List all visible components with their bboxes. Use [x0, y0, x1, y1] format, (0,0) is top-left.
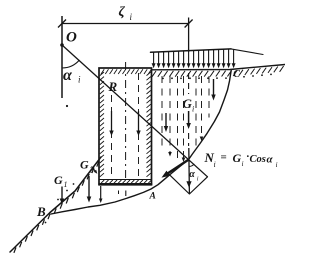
svg-text:i: i: [242, 159, 244, 168]
solid arrow in right soil mass (near C): [213, 79, 215, 96]
ground surface right of wall: [152, 65, 286, 70]
wall base hatch band top line: [99, 179, 152, 181]
wall slice outline: [99, 68, 152, 185]
wall right edge hatching: [147, 72, 151, 76]
svg-text:α: α: [63, 67, 73, 84]
centre vertical axis through O: [61, 16, 63, 98]
svg-text:G: G: [183, 96, 193, 111]
slip circle arc B-A-C: [51, 70, 231, 214]
svg-text:B: B: [36, 204, 46, 219]
wall base band hatching: [101, 180, 104, 183]
small arrow below wall left edge: [100, 186, 102, 200]
surcharge arrows: [153, 52, 155, 64]
svg-text:G: G: [54, 173, 63, 187]
weight arrow inside wall (right): [138, 111, 140, 132]
G_i line of action: upper solid part: [188, 18, 190, 52]
svg-text:R: R: [108, 79, 118, 94]
small arrowheads on flow lines: [168, 152, 172, 157]
svg-text:G: G: [233, 151, 242, 165]
dashed flow lines under surcharge: [161, 76, 163, 150]
svg-text:i: i: [197, 176, 199, 183]
left dimension tick: [58, 20, 66, 28]
right dimension tick: [185, 20, 193, 28]
dimension line z_i: [62, 23, 189, 25]
small angle arc alpha_i in polygon: [189, 164, 194, 167]
solid arrow in right soil mass (left): [165, 113, 167, 128]
weight arrow inside wall (left): [111, 111, 113, 132]
svg-text:i: i: [192, 105, 194, 114]
surcharge top line: [151, 49, 232, 52]
wall centreline (dash-dot): [125, 62, 127, 179]
G_2 arrow: [88, 176, 90, 198]
stray dot: [66, 105, 68, 107]
slope hatching: [14, 247, 16, 253]
angle arc alpha_i at O: [62, 60, 79, 68]
svg-text:ζ: ζ: [119, 5, 126, 20]
G_i line dashed in soil: [188, 73, 190, 94]
svg-text:1: 1: [64, 180, 68, 189]
svg-text:α: α: [267, 154, 274, 166]
svg-text:G: G: [80, 158, 89, 172]
svg-text:α: α: [189, 169, 195, 180]
svg-text:A: A: [149, 192, 156, 202]
tangential force thick arrow T_i: [166, 160, 189, 175]
wall top edge hatching: [101, 69, 104, 74]
svg-text:i: i: [214, 160, 216, 169]
wall interior dashed line (right): [138, 73, 140, 178]
svg-text:O: O: [66, 30, 77, 46]
ground hatch specks: [162, 78, 164, 80]
wall interior dashed line (left): [111, 95, 113, 178]
surcharge top line continuation: [231, 49, 263, 55]
svg-text:i: i: [276, 160, 278, 169]
specks above slope line: [45, 222, 47, 224]
G_i force vector to polygon: [188, 148, 191, 194]
wall left edge hatching: [100, 72, 104, 76]
centre point dot: [60, 43, 64, 47]
wall base thick line: [98, 183, 152, 186]
ground surface hatching: [152, 71, 156, 77]
force polygon thin sides: [169, 174, 208, 194]
G_1 arrow: [61, 187, 63, 201]
svg-text:C: C: [233, 69, 240, 80]
small stub below wall: [118, 191, 120, 195]
G_2 leader arrow: [92, 167, 96, 172]
G_i arrow (upper): [188, 111, 190, 125]
svg-text:Cos: Cos: [250, 154, 266, 165]
centreline stub below wall: [125, 191, 127, 197]
radius line R from O to slice base: [62, 45, 208, 177]
svg-text:=: =: [221, 152, 227, 164]
G_i line dashed (middle): [188, 133, 190, 146]
slope ground surface line: [10, 157, 101, 252]
